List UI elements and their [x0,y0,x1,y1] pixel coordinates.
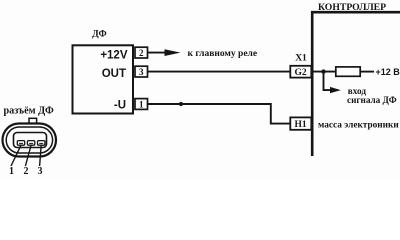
svg-text:2: 2 [139,48,144,58]
resistor R1 [336,67,360,76]
wire junction down to signal arrow [324,72,332,91]
svg-text:1: 1 [9,166,14,177]
pin 3 box [135,66,148,77]
DF sensor box U1 [73,45,134,113]
leader line pin 2 [25,145,31,166]
connector inner ring [6,127,52,153]
connector outer shell [3,124,57,157]
svg-text:G2: G2 [295,68,307,78]
contact 2 [27,141,34,146]
contact 1 [17,141,24,146]
pin 2 box [135,47,148,58]
svg-text:3: 3 [38,166,43,177]
svg-text:+12 В: +12 В [376,67,400,77]
wire pin3 to G2 [148,71,291,73]
svg-text:H1: H1 [295,120,307,130]
svg-text:разъём ДФ: разъём ДФ [4,105,55,116]
connector pin G2 [290,66,311,78]
arrow DF signal input [330,87,341,93]
arrow to main relay [165,49,181,56]
svg-text:сигнала ДФ: сигнала ДФ [347,95,397,105]
svg-text:ДФ: ДФ [92,30,107,40]
svg-text:OUT: OUT [102,68,126,80]
connector key tab [29,118,37,124]
contact 3 [38,141,45,146]
svg-text:X1: X1 [295,53,307,63]
wire pin1 to H1 [148,104,291,124]
connector pin housing [14,133,47,148]
controller boundary [312,12,400,156]
wire resistor to +12V [360,71,374,73]
svg-text:3: 3 [139,67,144,77]
leader line pin 3 [40,145,42,166]
leader line pin 1 [11,145,21,166]
junction dot [321,69,325,73]
splice dot on ground wire [179,102,183,106]
svg-text:2: 2 [24,166,29,177]
svg-text:+12V: +12V [100,50,128,62]
wire pin2 to relay arrow [148,52,170,54]
wire G2 to resistor [314,71,337,73]
svg-text:масса электроники: масса электроники [318,120,399,130]
svg-text:к главному реле: к главному реле [188,49,258,59]
svg-text:КОНТРОЛЛЕР: КОНТРОЛЛЕР [318,2,386,13]
svg-text:-U: -U [114,100,126,112]
pin 1 box [135,99,148,110]
connector pin H1 [290,117,311,129]
svg-text:1: 1 [139,100,144,110]
